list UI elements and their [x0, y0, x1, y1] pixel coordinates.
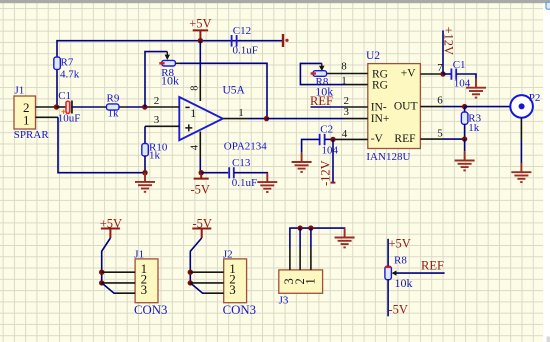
pin U5A.1 output [223, 107, 248, 119]
svg-text:OUT: OUT [394, 101, 418, 113]
pin J1b.2 [102, 282, 135, 284]
svg-text:-5V: -5V [190, 182, 209, 196]
wire OUT to P2 [465, 106, 510, 108]
wire R9 to op-amp pin2 node [126, 106, 145, 108]
wire R3 to pin5 node [464, 124, 466, 139]
pin J3.1 [310, 248, 312, 270]
wire R10 to ground node [144, 156, 146, 173]
node J1.2 / C1 / R7 junction [54, 104, 59, 109]
potentiometer R8 (ref) [385, 255, 413, 290]
wire J1 pin3 diagonal [102, 283, 116, 293]
wire C2 to pin4 node [325, 138, 333, 140]
pin J2b.1 [190, 271, 223, 273]
svg-text:1: 1 [304, 278, 318, 284]
svg-text:6: 6 [437, 95, 443, 107]
wire P2 to ground [520, 140, 522, 163]
ground under P2 [511, 163, 531, 182]
svg-text:1: 1 [23, 113, 30, 128]
wire -5V to J2 pins [190, 238, 201, 283]
connector J2 CON3 [223, 249, 256, 318]
node op-amp pin2 junction [142, 104, 147, 109]
svg-text:-12V: -12V [319, 160, 333, 186]
power +5V top [189, 17, 211, 41]
svg-text:C2: C2 [320, 123, 333, 135]
svg-text:10k: 10k [395, 276, 413, 290]
IC U2 IAN128U body [366, 50, 420, 163]
svg-text:4: 4 [342, 128, 348, 140]
svg-text:-5V: -5V [192, 216, 211, 230]
ground at R3/pin5 [455, 151, 475, 170]
svg-text:OPA2134: OPA2134 [224, 141, 267, 153]
window top edge bar [0, 0, 550, 3]
resistor R7 [54, 57, 80, 81]
pin U2.8 [327, 60, 368, 73]
node pin5 junction [462, 136, 467, 141]
svg-text:C12: C12 [233, 25, 251, 37]
svg-text:+V: +V [401, 68, 416, 80]
wire REF stub to U2 pin2 [311, 106, 345, 108]
wire C2 to ground [302, 139, 320, 152]
wiper arrow R8 ref [392, 270, 445, 275]
wire J1.1 to ground node [58, 117, 145, 172]
svg-text:U2: U2 [366, 50, 380, 62]
ground at J3 [335, 228, 355, 247]
node J1 pin2 junction [99, 280, 104, 285]
pin J1b.1 [102, 271, 135, 273]
power +12V [442, 27, 456, 75]
svg-text:10k: 10k [161, 74, 179, 88]
svg-text:R9: R9 [107, 93, 120, 105]
right scrollbar strip [543, 3, 550, 342]
svg-text:3: 3 [141, 282, 148, 297]
svg-text:2: 2 [154, 95, 160, 107]
node pin7 junction [440, 71, 445, 76]
svg-text:RG: RG [372, 68, 388, 80]
svg-text:4.7k: 4.7k [60, 68, 80, 80]
wire output [248, 118, 267, 120]
wire C1 to ground [456, 74, 476, 79]
svg-text:C13: C13 [232, 157, 251, 169]
wire output to U2 pin3 [267, 118, 345, 120]
svg-text:IAN128U: IAN128U [366, 151, 410, 163]
wire +5V to R8 [387, 239, 389, 266]
pin P2 shield [520, 118, 522, 140]
potentiometer R8 (feedback) [159, 60, 180, 87]
wire C1 to R9 [72, 106, 100, 108]
pin U2.4 [333, 128, 368, 140]
wire J2 pin3 diagonal [190, 283, 204, 293]
svg-text:5: 5 [437, 127, 443, 139]
wire C13 to ground [234, 172, 267, 174]
node J3 pin1 junction [308, 225, 313, 230]
ground at C1 [466, 79, 486, 98]
svg-text:P2: P2 [529, 92, 541, 104]
wire feedback loop to R8 wiper [145, 52, 167, 107]
svg-text:1k: 1k [149, 150, 161, 162]
node U2 pin4 junction [330, 137, 335, 142]
wire J3 pin2 stub [299, 228, 301, 248]
svg-text:4: 4 [190, 144, 201, 150]
wire pin5 node to ground [464, 139, 466, 151]
power -12V [319, 139, 336, 186]
pin J2b.3 [205, 292, 224, 294]
svg-text:J1: J1 [134, 249, 144, 261]
pin J2b.2 [190, 282, 223, 284]
wire pin5 to node [443, 138, 465, 140]
pin J1.1 [36, 116, 59, 118]
connector P2 [510, 92, 540, 118]
pin U2.5 REF [420, 127, 443, 139]
op-amp U5A [179, 85, 267, 153]
pin U2.3 [343, 106, 367, 119]
connector J1 SPRAR [14, 84, 50, 141]
svg-text:10uF: 10uF [58, 113, 81, 125]
node J2 pin1 junction [188, 270, 193, 275]
ground at C13 [257, 173, 277, 192]
junction +5V rail [198, 38, 203, 43]
svg-text:8: 8 [190, 86, 201, 91]
node J1 pin1 junction [99, 270, 104, 275]
svg-text:10k: 10k [315, 85, 333, 99]
wiper arrow R8 [165, 52, 170, 60]
svg-text:CON3: CON3 [134, 303, 167, 317]
wiper arrow R8 (gain) [319, 63, 324, 71]
wire top rail from R7 to C12 end [57, 41, 283, 107]
svg-text:CON3: CON3 [223, 303, 256, 317]
wire +5V to J1 pins [102, 238, 111, 283]
svg-text:+5V: +5V [100, 216, 122, 230]
svg-text:C1: C1 [58, 90, 71, 102]
capacitor C2 [320, 123, 339, 156]
svg-text:3: 3 [154, 114, 160, 126]
capacitor C13 [229, 157, 257, 189]
wire J3 pin1 stub [310, 228, 312, 248]
svg-text:-5V: -5V [389, 302, 408, 316]
pin U5A.8 [190, 72, 201, 101]
svg-text:RG: RG [372, 80, 388, 92]
pin J1b.3 [116, 292, 135, 294]
connector J3 [279, 270, 323, 307]
ground under R10 [135, 173, 155, 192]
pin U2.2 [343, 95, 367, 107]
wire R8 to output node [180, 63, 267, 118]
resistor R9 [100, 93, 126, 120]
ground at C2 [292, 153, 312, 172]
pin U2.1 [341, 75, 368, 87]
node output junction [264, 116, 269, 121]
potentiometer R8 (gain set) [311, 71, 334, 99]
node J2 pin2 junction [188, 280, 193, 285]
pin U5A.4 [190, 132, 201, 159]
wire R8 wiper loop to U2 pin1 [300, 63, 345, 84]
pin U2.6 OUT [420, 95, 443, 107]
svg-text:+5V: +5V [189, 17, 211, 31]
svg-text:SPRAR: SPRAR [14, 129, 50, 141]
pin U2.7 [420, 62, 443, 74]
svg-text:+5V: +5V [389, 236, 411, 250]
wire pin4 to -5V node [199, 158, 201, 173]
svg-text:1k: 1k [468, 122, 480, 134]
node OUT junction [462, 104, 467, 109]
svg-text:C1: C1 [453, 59, 466, 71]
wire R8 to -5V [387, 280, 389, 317]
pin J3.2 [299, 248, 301, 270]
resistor R10 [142, 126, 168, 161]
svg-text:1: 1 [238, 107, 244, 119]
svg-text:1k: 1k [108, 108, 120, 120]
svg-text:104: 104 [322, 145, 339, 157]
svg-text:IN-: IN- [371, 101, 387, 113]
wire -5V node to C13 [201, 172, 228, 174]
capacitor C1 polarized [57, 90, 81, 125]
svg-text:R8: R8 [394, 255, 407, 267]
wire J3 bus to ground [290, 228, 345, 248]
wire OUT to node [443, 106, 465, 108]
svg-text:-V: -V [371, 133, 384, 145]
svg-text:3: 3 [229, 282, 236, 297]
power -5V [190, 173, 209, 197]
wire +5V rail to pin8 [199, 41, 201, 72]
power -5V (J2 feed) [192, 216, 212, 238]
svg-text:0.1uF: 0.1uF [233, 45, 258, 57]
pin U5A.2 [147, 95, 180, 107]
svg-text:REF: REF [394, 133, 415, 145]
resistor R3 [461, 107, 481, 134]
pin J1.2 [36, 106, 57, 108]
pin J3.3 [289, 248, 291, 270]
capacitor C12 [232, 25, 258, 57]
svg-text:IN+: IN+ [371, 113, 390, 125]
svg-text:J2: J2 [223, 249, 233, 261]
svg-text:8: 8 [341, 60, 347, 72]
svg-text:J1: J1 [15, 84, 25, 96]
power +5V (J1 feed) [100, 216, 122, 238]
node -5V junction [199, 170, 204, 175]
svg-text:U5A: U5A [223, 85, 246, 97]
svg-text:J3: J3 [279, 295, 289, 307]
svg-text:REF: REF [421, 258, 444, 272]
svg-text:R7: R7 [61, 57, 74, 69]
node J3 pin2 junction [297, 225, 302, 230]
power rail end bar [283, 34, 289, 47]
pin U5A.3 [145, 114, 180, 127]
svg-text:+12V: +12V [442, 27, 456, 56]
svg-text:1: 1 [190, 106, 196, 120]
capacitor C1 (104) [443, 59, 471, 89]
svg-text:3: 3 [343, 106, 349, 118]
node ground junction [142, 170, 147, 175]
svg-text:0.1uF: 0.1uF [232, 177, 257, 189]
connector J1 CON3 [134, 249, 167, 318]
